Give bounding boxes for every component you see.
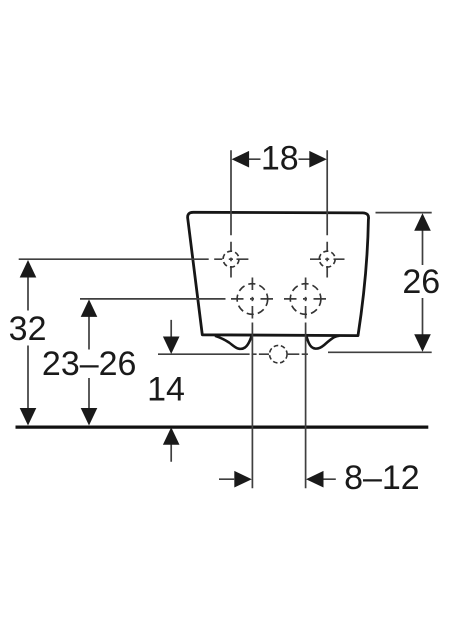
dim line 32 vertical [27, 277, 29, 410]
center line vertical small hole right + 18 extension [326, 150, 328, 277]
dim line 23-26 vertical [88, 316, 90, 409]
bidet left foot [215, 336, 252, 349]
mounting hole small right (dashed circle) [319, 251, 335, 267]
arrow 8-12 right [234, 471, 252, 488]
arrow 18 left [232, 151, 250, 168]
ref line 23-26 (big holes level) [80, 298, 273, 300]
svg-text:26: 26 [402, 263, 440, 301]
arrow 26 up [414, 213, 431, 231]
dim line 18 stems [249, 158, 310, 160]
svg-text:18: 18 [261, 139, 299, 177]
mounting hole small left (dashed circle) [223, 251, 239, 267]
arrow 23-26 up [81, 299, 98, 317]
fixing hole big right (dashed circle) [290, 284, 321, 315]
arrow 32 up [20, 260, 37, 278]
svg-text:32: 32 [9, 310, 47, 348]
svg-text:8–12: 8–12 [344, 459, 420, 497]
dim line 14 stems [170, 320, 172, 462]
drain circle bottom (dashed circle) [270, 345, 288, 363]
dim line 8-12 stems [219, 478, 336, 480]
bidet body outline [188, 212, 369, 335]
thin reference / center lines [19, 150, 432, 488]
svg-text:14: 14 [147, 371, 185, 409]
floor line [16, 425, 429, 428]
arrow 14 up [163, 427, 180, 445]
bidet right foot [306, 336, 339, 349]
center line vertical small hole left + 18 extension [230, 150, 232, 277]
center line horizontal big hole right [284, 298, 326, 300]
ref line 26 bottom [328, 351, 432, 353]
arrow 26 down [414, 334, 431, 352]
center line horizontal small hole right [310, 258, 345, 260]
ref line 26 top [376, 212, 432, 214]
dim line 26 vertical [422, 230, 424, 336]
svg-text:23–26: 23–26 [42, 345, 137, 383]
arrow 18 right [309, 151, 327, 168]
arrow 23-26 down [81, 408, 98, 426]
fixing hole big left (dashed circle) [237, 284, 268, 315]
center line vertical big hole right, continues below floor [305, 278, 307, 489]
ref line 32 (top small holes level) [19, 258, 249, 260]
ref line 14 / drain circle center line [158, 353, 308, 355]
arrow 8-12 left [306, 471, 324, 488]
center line vertical big hole left, continues below floor [251, 278, 253, 489]
arrowheads [20, 151, 431, 488]
arrow 32 down [20, 408, 37, 426]
arrow 14 down [163, 337, 180, 355]
